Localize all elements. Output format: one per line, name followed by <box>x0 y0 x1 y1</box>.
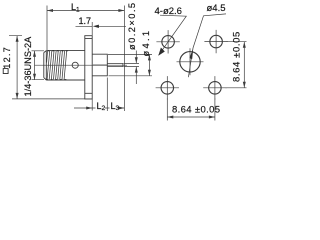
dim pin dia line <box>135 51 137 85</box>
centerline <box>35 64 128 66</box>
dim 4.1 line <box>148 54 150 75</box>
dim 1.7 arrow <box>93 25 99 28</box>
dim 1.7 line left <box>76 25 93 27</box>
dim L2 L3 line <box>74 107 124 109</box>
center pin <box>93 63 123 66</box>
dim L2 L3 arrows <box>86 107 124 110</box>
svg-text:4-ø2.6: 4-ø2.6 <box>155 6 182 17</box>
dim 4.1 extension lines <box>108 54 152 75</box>
dim pin dia extension lines <box>124 63 140 66</box>
dim 8.64 right line <box>243 42 245 88</box>
svg-text:L2: L2 <box>97 101 106 112</box>
svg-text:1/4-36UNS-2A: 1/4-36UNS-2A <box>23 36 33 97</box>
dim 8.64 bottom extension lines <box>167 99 215 121</box>
svg-text:L1: L1 <box>71 2 80 14</box>
thread hatching <box>47 51 67 79</box>
dim 8.64 bottom line <box>167 116 215 118</box>
dim 8.64 bottom arrows <box>167 116 215 119</box>
dim 8.64 right arrows <box>243 42 246 88</box>
dim 12.7 arrows <box>16 36 19 99</box>
thread dim line <box>34 51 36 80</box>
flange plate <box>85 36 92 99</box>
thread crest bumps top <box>47 50 68 51</box>
dim 1.7 extension line <box>91 22 93 35</box>
dim L2 L3 extension lines <box>92 78 107 112</box>
svg-text:ø4.1: ø4.1 <box>141 29 151 57</box>
dim 8.64 right extension lines <box>226 42 247 88</box>
dim L1 extension lines <box>47 6 124 112</box>
solder hole on barrel <box>72 62 78 68</box>
dim L1 line <box>47 10 124 12</box>
dim 1.7 line right <box>99 25 127 27</box>
threaded barrel outline <box>44 51 85 80</box>
dim 4.1 arrows <box>148 54 151 75</box>
svg-text:ø0.2×0.5: ø0.2×0.5 <box>127 1 137 50</box>
svg-text:8.64 ±0.05: 8.64 ±0.05 <box>232 31 243 82</box>
mounting hole BR <box>203 76 226 99</box>
dim 12.7 line <box>16 36 18 99</box>
label square 12.7 <box>2 46 12 73</box>
thread dim arrows <box>33 51 36 80</box>
leader o4.5 <box>188 14 226 77</box>
dim L1 arrows <box>47 9 124 12</box>
thread crest bumps bottom <box>46 79 66 80</box>
svg-text:12.7: 12.7 <box>2 46 12 69</box>
mounting hole TR <box>204 30 227 53</box>
center boss circle <box>177 48 204 75</box>
thread dim extension lines <box>32 51 45 80</box>
dim pin dia arrows <box>135 57 138 72</box>
mounting hole BL <box>156 76 179 99</box>
mounting hole TL <box>156 30 179 53</box>
svg-text:8.64 ±0.05: 8.64 ±0.05 <box>172 105 220 116</box>
dim 12.7 extension ticks <box>9 36 92 99</box>
leader 4-o2.6 <box>158 15 186 56</box>
svg-text:L3: L3 <box>111 101 120 112</box>
svg-text:1.7: 1.7 <box>79 16 92 26</box>
svg-text:ø4.5: ø4.5 <box>207 3 226 14</box>
insulator bushing <box>92 54 107 76</box>
